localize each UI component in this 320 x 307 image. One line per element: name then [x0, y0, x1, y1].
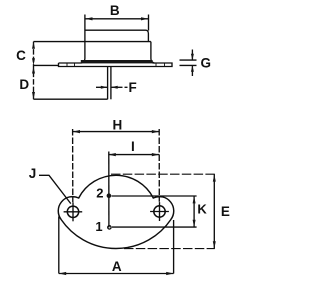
pin column extension line [108, 152, 110, 228]
dimension C bottom arrow [32, 58, 35, 65]
right hole crosshair horizontal [150, 211, 169, 213]
left hole crosshair vertical [72, 202, 74, 221]
dimension I line [108, 154, 159, 156]
dimension K top arrow [193, 196, 196, 203]
cap top outline [85, 30, 148, 41]
dimension I left arrow [108, 153, 115, 156]
dimension E top arrow [213, 174, 216, 181]
svg-text:B: B [110, 3, 120, 18]
dimension K line [193, 196, 195, 227]
dimension A line [59, 273, 174, 275]
dimension G bottom extension line [180, 64, 197, 66]
dimension E bottom arrow [213, 241, 216, 248]
svg-text:I: I [131, 139, 135, 154]
lead side view left edge [107, 67, 109, 100]
dimension K bottom extension line [112, 226, 197, 228]
svg-text:2: 2 [96, 186, 103, 201]
svg-text:H: H [113, 117, 123, 132]
dimension B left arrow [85, 17, 93, 20]
D bottom extension line [34, 98, 108, 100]
dimension I right arrow [152, 153, 159, 156]
dimension G top arrowhead [191, 54, 194, 60]
svg-text:D: D [19, 77, 29, 92]
dimension F left arrowhead [101, 86, 108, 89]
dimension E top extension line [111, 173, 215, 175]
right hole crosshair vertical [159, 202, 161, 221]
dimension D top arrow [32, 66, 35, 73]
dimension F left arrow line [96, 86, 108, 88]
dimension E line [213, 174, 215, 248]
flange outline bottom view [58, 175, 173, 248]
dimension H left arrow [73, 130, 80, 133]
dimension G top arrow line [191, 50, 193, 61]
dimension A right arrow [166, 272, 173, 275]
cap step line / C extension [34, 41, 151, 43]
flange right tab tick [155, 63, 157, 67]
dimension K bottom arrow [193, 220, 196, 227]
flange plate side view [59, 63, 173, 67]
J leader line [39, 175, 71, 203]
svg-text:A: A [112, 259, 122, 274]
pin 1 circle [108, 226, 111, 229]
H left extension line [72, 129, 74, 202]
cap lower right side [151, 42, 155, 64]
dimension F right arrowhead [111, 86, 118, 89]
flange left tab tick [66, 63, 68, 67]
left hole crosshair horizontal [64, 211, 83, 213]
dimension K top extension line [112, 195, 197, 197]
svg-text:E: E [221, 204, 230, 219]
dimension E bottom extension line [124, 248, 215, 250]
dimension C/D vertical line [33, 42, 35, 100]
C/D mid extension line [34, 64, 59, 66]
dimension B right arrow [141, 17, 149, 20]
pin 2 dot [107, 193, 112, 198]
svg-text:F: F [128, 80, 136, 95]
dimension H line [73, 131, 160, 133]
dimension F dash [125, 86, 128, 88]
dimension G bottom arrow line [191, 65, 193, 76]
A right extension line [173, 220, 175, 274]
cap weld lip (hatched) [81, 60, 153, 63]
dimension G top extension line [180, 59, 197, 61]
svg-text:C: C [16, 48, 26, 63]
dimension H right arrow [152, 130, 159, 133]
dimension C top arrow [32, 42, 35, 49]
dimension A left arrow [59, 272, 66, 275]
A left extension line [58, 217, 60, 274]
cap left side wire [81, 15, 85, 64]
svg-text:J: J [29, 166, 37, 181]
left mounting hole circle [67, 206, 78, 217]
svg-text:K: K [197, 201, 207, 216]
B right extension line [148, 15, 150, 31]
flange right tab tick 2 [164, 63, 166, 67]
right mounting hole circle [154, 206, 165, 217]
lead side view right edge [110, 67, 112, 100]
flange left tab tick 2 [74, 63, 76, 67]
dimension G bottom arrowhead [191, 65, 194, 71]
dimension F right arrow line [111, 86, 123, 88]
dimension B line [85, 18, 149, 20]
dimension D bottom arrow [32, 92, 35, 99]
svg-text:1: 1 [95, 219, 102, 234]
svg-text:G: G [201, 55, 212, 70]
H right extension line [158, 129, 160, 202]
